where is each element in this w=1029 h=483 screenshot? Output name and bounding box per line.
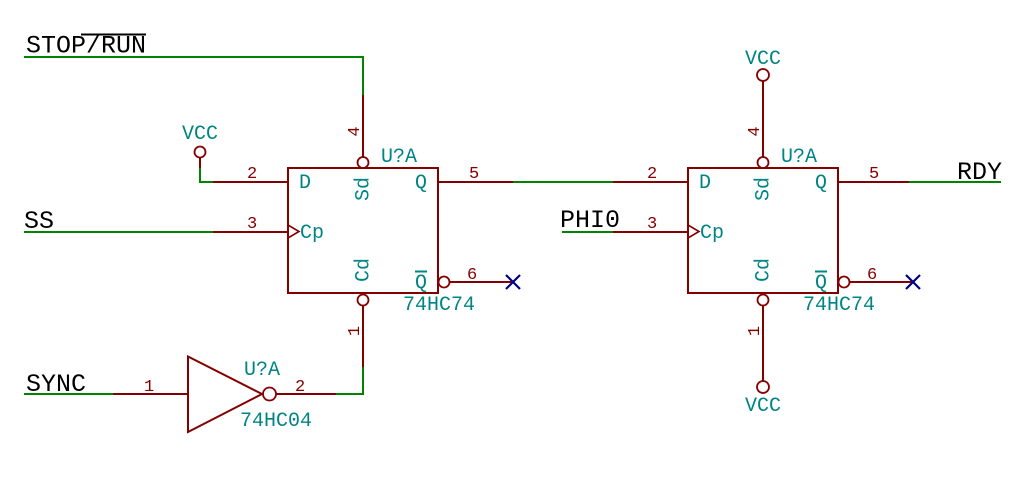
svg-text:1: 1	[144, 378, 154, 397]
svg-text:4: 4	[746, 126, 765, 136]
svg-text:Q: Q	[415, 172, 427, 195]
wire VCC1 to U1 pin D	[200, 168, 213, 182]
svg-text:3: 3	[247, 215, 257, 234]
U2 clock triangle	[688, 225, 699, 238]
flip-flop U?A 74HC74 #2	[613, 81, 913, 381]
wire U3 output to U1 pin Cd	[336, 367, 363, 394]
svg-text:Cd: Cd	[753, 258, 776, 282]
U2 pin 6 (Qbar)	[850, 281, 913, 283]
U1 body	[288, 168, 438, 293]
U2 body	[688, 168, 838, 293]
U1 pin name Qbar	[415, 272, 427, 296]
svg-text:Sd: Sd	[353, 177, 376, 201]
svg-text:VCC: VCC	[745, 395, 781, 418]
svg-text:74HC74: 74HC74	[403, 294, 475, 317]
U3 triangle body	[188, 357, 262, 433]
svg-text:U?A: U?A	[244, 359, 280, 382]
svg-text:PHI0: PHI0	[560, 206, 620, 235]
U3 pin 2 (output)	[276, 393, 336, 395]
U2 pin 4 bubble	[758, 157, 769, 168]
svg-text:D: D	[299, 172, 311, 195]
U1 pin 1 (Cd)	[362, 306, 364, 368]
svg-text:Cp: Cp	[700, 222, 724, 245]
U1 pin 4 (Sd)	[362, 95, 364, 157]
U2 pin 3 (Cp)	[613, 231, 688, 233]
svg-text:2: 2	[247, 165, 257, 184]
wire PHI0 to U2 pin Cp	[562, 231, 615, 233]
power VCC #1	[182, 123, 218, 168]
U1 pin 6 bubble	[439, 277, 450, 288]
svg-text:Cp: Cp	[300, 222, 324, 245]
svg-text:Sd: Sd	[753, 177, 776, 201]
U1 pin 3 (Cp)	[213, 231, 288, 233]
power VCC #2	[745, 48, 781, 81]
wire SYNC to U3 input	[24, 393, 114, 395]
wire U1 Q to U2 D	[513, 181, 614, 183]
inverter U?A 74HC04	[113, 357, 336, 434]
svg-text:74HC74: 74HC74	[803, 294, 875, 317]
svg-text:U?A: U?A	[781, 146, 817, 169]
U3 output bubble	[263, 388, 276, 401]
no-connect X on U1 pin 6	[506, 275, 520, 289]
U1 pin 2 (D)	[213, 181, 288, 183]
svg-text:6: 6	[467, 266, 477, 285]
U2 pin name Qbar	[815, 272, 827, 296]
svg-text:VCC: VCC	[182, 123, 218, 146]
U1 pin 1 bubble	[358, 295, 369, 306]
svg-text:D: D	[699, 172, 711, 195]
no-connect X on U2 pin 6	[906, 275, 920, 289]
flip-flop U?A 74HC74 #1	[213, 95, 513, 367]
label STOP/RUN	[26, 32, 146, 61]
svg-text:74HC04: 74HC04	[240, 410, 312, 433]
svg-text:3: 3	[647, 215, 657, 234]
svg-text:5: 5	[869, 165, 879, 184]
svg-text:5: 5	[469, 165, 479, 184]
U1 pin 4 bubble	[358, 157, 369, 168]
U2 pin 2 (D)	[613, 181, 688, 183]
svg-text:Q: Q	[815, 172, 827, 195]
U2 pin 6 bubble	[839, 277, 850, 288]
svg-text:VCC: VCC	[745, 48, 781, 71]
svg-text:Q: Q	[815, 272, 827, 295]
wire STOP/RUN to U1 pin Sd	[24, 57, 363, 97]
U2 pin 1 (Cd) wire to VCC3	[762, 306, 764, 382]
power VCC #3	[745, 381, 781, 418]
U1 pin 6 (Qbar)	[450, 281, 513, 283]
wire SS to U1 pin Cp	[24, 231, 214, 233]
U3 pin 1 (input)	[113, 393, 188, 395]
svg-text:6: 6	[867, 266, 877, 285]
svg-text:2: 2	[295, 378, 305, 397]
U2 pin 4 (Sd) wire from VCC2	[762, 81, 764, 157]
svg-text:U?A: U?A	[381, 146, 417, 169]
svg-text:1: 1	[746, 326, 765, 336]
svg-text:4: 4	[346, 126, 365, 136]
svg-text:Q: Q	[415, 272, 427, 295]
U1 pin 5 (Q)	[438, 181, 513, 183]
U2 pin 1 bubble	[758, 295, 769, 306]
U2 pin 5 (Q)	[838, 181, 913, 183]
wire U2 Q to RDY	[909, 181, 1001, 183]
svg-text:2: 2	[647, 165, 657, 184]
svg-text:1: 1	[346, 326, 365, 336]
svg-text:Cd: Cd	[353, 258, 376, 282]
U1 clock triangle	[288, 225, 299, 238]
